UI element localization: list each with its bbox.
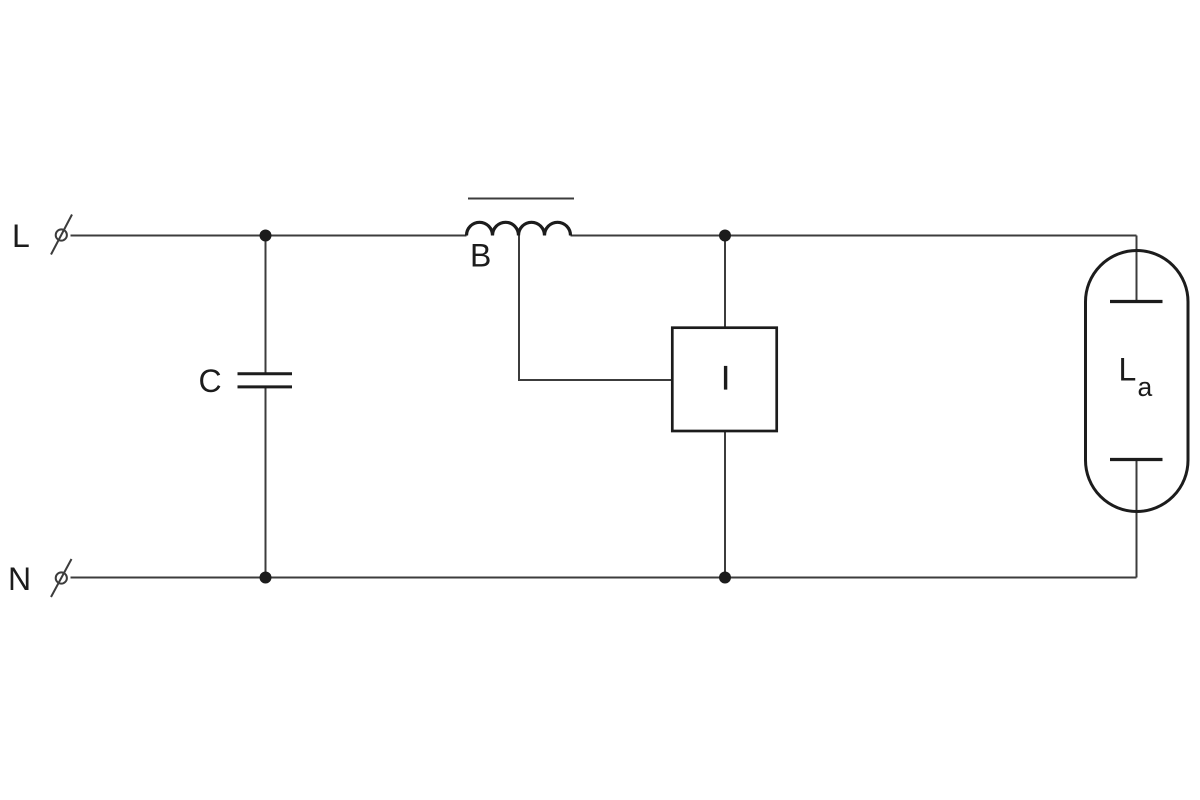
svg-text:B: B	[470, 238, 491, 274]
svg-text:L: L	[12, 218, 30, 254]
svg-text:N: N	[8, 561, 31, 597]
svg-text:L: L	[1119, 352, 1137, 388]
svg-text:a: a	[1138, 372, 1153, 402]
svg-text:C: C	[199, 363, 222, 399]
